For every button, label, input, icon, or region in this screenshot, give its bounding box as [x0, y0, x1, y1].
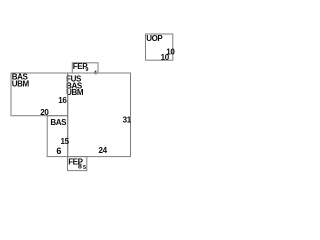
area UOP outline (top-right porch): [146, 34, 173, 60]
svg-text:8: 8: [78, 164, 82, 171]
svg-text:UBM: UBM: [66, 88, 84, 97]
svg-text:15: 15: [61, 137, 70, 146]
area BAS/UBM left outline: [11, 73, 68, 116]
area FEP outline (bottom porch): [68, 157, 87, 171]
svg-text:9: 9: [85, 67, 88, 73]
svg-text:UBM: UBM: [12, 80, 30, 89]
svg-text:6: 6: [56, 146, 61, 156]
area FEP outline (top porch): [72, 63, 98, 73]
svg-text:24: 24: [99, 146, 108, 155]
svg-text:16: 16: [58, 96, 67, 105]
area FUS/BAS/UBM main outline: [68, 73, 131, 157]
svg-text:5: 5: [83, 165, 86, 171]
svg-text:BAS: BAS: [50, 118, 67, 127]
area BAS strip outline (bottom-left wing): [47, 116, 67, 157]
svg-text:31: 31: [123, 115, 132, 124]
svg-text:10: 10: [161, 53, 170, 62]
svg-text:UOP: UOP: [146, 34, 163, 43]
